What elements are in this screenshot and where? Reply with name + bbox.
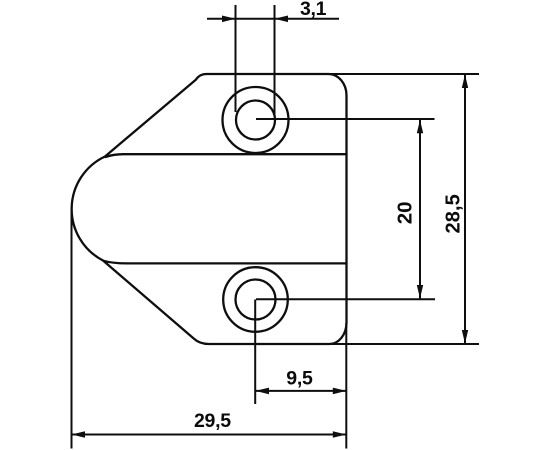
- label 3,1: [300, 0, 327, 20]
- arrowhead 9,5 right (points right): [333, 388, 347, 395]
- svg-text:9,5: 9,5: [286, 368, 313, 390]
- fold line lower: [104, 261, 347, 264]
- arrowhead 20 bottom (points down): [417, 285, 423, 299]
- hole bottom inner circle: [236, 280, 276, 320]
- dimension line 3,1: [207, 18, 339, 20]
- hole top outer circle: [223, 87, 289, 153]
- extension line 28,5 top: [328, 73, 479, 75]
- label 28,5: [443, 194, 465, 233]
- label 20: [394, 201, 417, 224]
- center line bottom hole horizontal: [256, 298, 435, 300]
- arrowhead 29,5 right (points right): [333, 431, 347, 438]
- extension line 28,5 bottom: [328, 343, 479, 345]
- svg-text:3,1: 3,1: [300, 0, 327, 20]
- extension line 3,1 left: [235, 5, 237, 112]
- hole bottom outer circle: [223, 267, 288, 332]
- dimension line 29,5: [72, 434, 347, 436]
- arrowhead 20 top (points up): [417, 120, 423, 134]
- svg-text:28,5: 28,5: [443, 194, 465, 233]
- arrowhead 28,5 bottom (points down): [462, 330, 468, 344]
- dimension line 28,5: [464, 75, 466, 344]
- arrowhead 3,1 left (points right): [222, 16, 236, 23]
- extension line 29,5 left: [71, 210, 73, 449]
- svg-text:29,5: 29,5: [194, 410, 231, 432]
- arrowhead 9,5 left (points left): [256, 388, 270, 395]
- hole top inner circle: [236, 101, 275, 140]
- center line top hole: [256, 118, 435, 120]
- fold line upper: [106, 154, 347, 157]
- arrowhead 29,5 left (points left): [72, 431, 86, 438]
- svg-text:20: 20: [394, 201, 417, 224]
- label 29,5: [194, 410, 231, 432]
- center line bottom hole vertical: [254, 300, 256, 405]
- arrowhead 3,1 right (points left): [275, 16, 289, 23]
- part outline: [72, 74, 347, 344]
- label 9,5: [286, 368, 313, 390]
- extension line 3,1 right: [274, 5, 276, 115]
- dimension line 9,5: [256, 390, 347, 392]
- dimension line 20: [419, 120, 421, 299]
- extension line 29,5 right: [345, 323, 347, 449]
- arrowhead 28,5 top (points up): [462, 75, 468, 89]
